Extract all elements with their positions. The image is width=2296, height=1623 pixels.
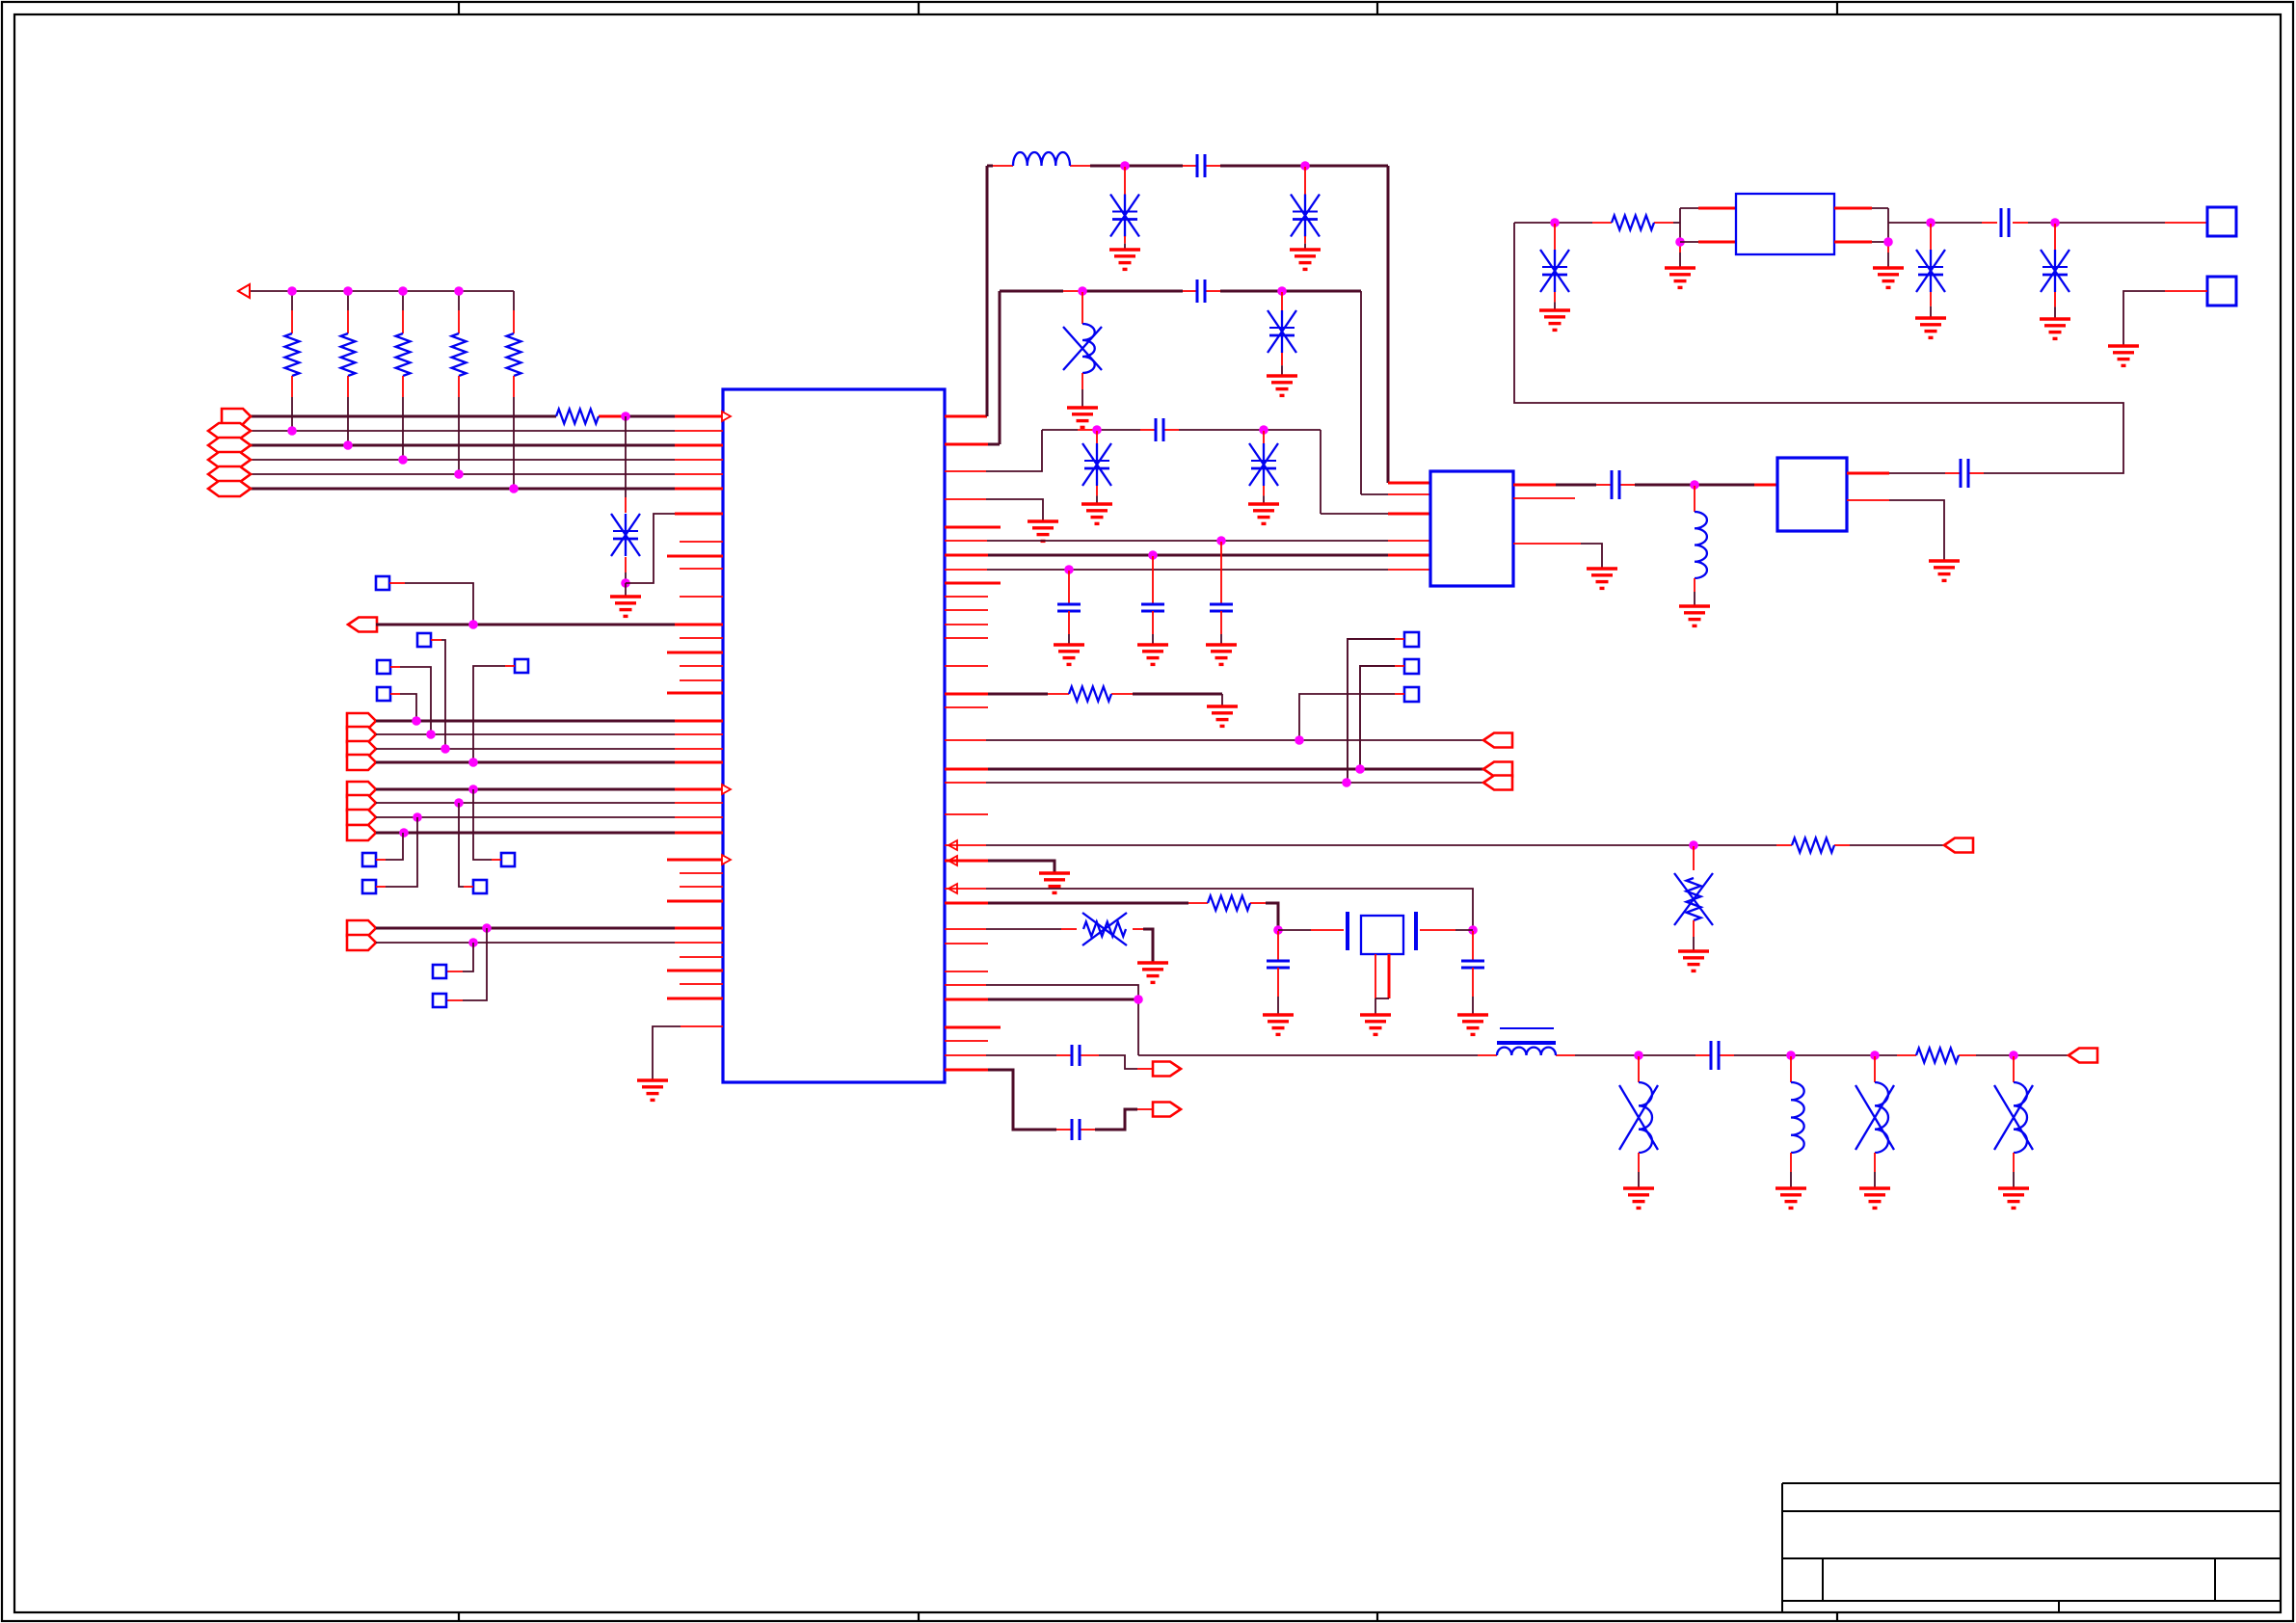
variable inductor L2 (1063, 292, 1102, 427)
wire arrow line 648 (376, 624, 723, 626)
bus wire b2 (945, 554, 1430, 557)
wire FL2 pin2 gnd (1847, 500, 1944, 561)
capacitor C12 (1072, 1045, 1080, 1066)
pin arrowhead line 819 (722, 785, 731, 794)
ground 893 (1039, 873, 1070, 892)
junction R4-line5 (454, 469, 464, 479)
wire FL1 pin3 gnd (1513, 544, 1602, 569)
wire P6 down (390, 694, 416, 721)
ground pin518 (1028, 521, 1058, 541)
junction R2-line3 (343, 440, 353, 450)
bus wire line2 (251, 430, 723, 432)
pin arrowhead 877 (948, 840, 957, 850)
wire line 963 (376, 927, 723, 930)
ground R8 (1207, 706, 1238, 726)
junction 978 (468, 938, 478, 947)
connector P22 square (433, 965, 446, 978)
connector P31 arrow (1153, 1103, 1181, 1117)
junction FL1 out (1690, 480, 1699, 490)
connector P15 square (362, 853, 376, 866)
capacitor C2 (1197, 279, 1205, 303)
connector P6 square (377, 687, 390, 701)
junction 833 (454, 798, 464, 808)
junction 963 (482, 923, 492, 933)
wire lineA (945, 1055, 1153, 1069)
junction varactor node (621, 578, 630, 588)
wire P1 to node (389, 583, 473, 625)
balun output tie (1887, 208, 1889, 268)
resistor R1 with leads (285, 291, 300, 431)
rail junction node 1 (287, 286, 297, 296)
inductor L1 (1013, 152, 1070, 166)
junction xtal right (1468, 925, 1478, 935)
capacitor C7 (1612, 470, 1619, 499)
wire P23 down (1348, 639, 1404, 783)
junction R1-line2 (287, 426, 297, 436)
junction 819 (468, 785, 478, 794)
connector P5 square (515, 659, 528, 673)
junction 877 (1689, 840, 1698, 850)
wire line 819 (376, 788, 723, 791)
pin arrowhead line1 (722, 412, 731, 421)
wire P15 up (376, 833, 403, 860)
junction balun out (1883, 237, 1893, 247)
wire line 812 (945, 782, 1483, 784)
ground RV2 (1137, 963, 1168, 982)
wire line 937 (945, 903, 1278, 930)
wire P24 down (1360, 666, 1404, 769)
ground J8 (2108, 346, 2139, 365)
rail junction node 3 (398, 286, 408, 296)
connector P13 pentagon (347, 810, 376, 825)
junction row3 b (1259, 425, 1268, 435)
filter FL3 (1736, 194, 1834, 254)
junction topright c (2050, 218, 2060, 227)
connector P12 pentagon (347, 795, 376, 811)
bus wire line1 (251, 415, 723, 418)
junction 791 (468, 758, 478, 767)
wire line 768 (945, 739, 1483, 741)
capacitor C4 (1054, 571, 1084, 664)
capacitor C3 (1156, 418, 1163, 441)
bus wire line6 (251, 488, 723, 491)
connector J5 hexagon (208, 466, 251, 482)
junction row1 a (1120, 161, 1130, 171)
capacitor C14 (1711, 1041, 1719, 1070)
resistor R4 with leads (452, 291, 467, 474)
varistor RV1 (1674, 846, 1713, 971)
ground FL1 (1587, 569, 1617, 588)
varactor D3 (1290, 167, 1321, 269)
wire P18 up (459, 803, 473, 887)
junction topright a (1550, 218, 1560, 227)
capacitor C6 (1206, 542, 1237, 664)
border zone tick marks (459, 2, 1837, 1621)
connector J3 hexagon (208, 438, 251, 453)
wire balun out pair (1834, 208, 1888, 242)
wire row3 (1042, 430, 1430, 514)
connector P7 pentagon (347, 713, 376, 729)
connector J1 pentagon (222, 409, 251, 424)
crystal Y1 (1348, 912, 1416, 1034)
connector P28 arrow (1483, 776, 1512, 790)
wire line 922 (945, 889, 1473, 930)
junction 812 (1342, 778, 1351, 787)
wire IC pin461 to row2 (945, 291, 1000, 444)
capacitor C10 (1263, 931, 1294, 1034)
wire xtal right (1420, 929, 1473, 931)
wire line 791 (376, 761, 723, 764)
resistor R11 (1916, 1049, 1959, 1063)
pin arrowhead 922 (948, 884, 957, 893)
capacitor C1 (1197, 154, 1205, 177)
connector P10 pentagon (347, 755, 376, 770)
wire topright main b (1888, 222, 2207, 224)
wire line 748 (376, 720, 723, 723)
bus wire line3 (251, 444, 723, 447)
wire varactor node to IC (626, 514, 723, 583)
wire line 893 (945, 861, 1055, 873)
capacitor C13 (1072, 1119, 1080, 1140)
wire P17 up (376, 817, 417, 887)
connector J8 square (2207, 277, 2236, 306)
variable inductor L7 (1994, 1056, 2033, 1208)
FL1 nc stub (1513, 497, 1575, 499)
ground FL2 (1929, 561, 1960, 580)
wire line 777 (376, 748, 723, 750)
balun input tie (1679, 208, 1681, 268)
resistor R9 (1792, 838, 1834, 853)
capacitor C8 (1961, 459, 1968, 488)
bus wire b3 (945, 569, 1430, 571)
junction row3 a (1092, 425, 1102, 435)
connector J2 hexagon (208, 423, 251, 439)
junction 762 (426, 730, 436, 739)
wire FL2 out loop (1514, 223, 2123, 473)
junction xtal left (1273, 925, 1283, 935)
rail junction node 4 (454, 286, 464, 296)
connector P20 pentagon (347, 935, 376, 950)
wire line 978 (376, 942, 723, 944)
rail junction node 2 (343, 286, 353, 296)
connector P17 square (362, 880, 376, 893)
junction bl c (1870, 1051, 1880, 1060)
connector P16 square (501, 853, 515, 866)
junction 864 (399, 828, 409, 838)
varactor D8 (1915, 224, 1946, 337)
junction 648 (468, 620, 478, 629)
wire P3 down (431, 640, 445, 749)
connector P14 pentagon (347, 825, 376, 840)
wire xtal left (1278, 929, 1344, 931)
connector P21 square (433, 994, 446, 1007)
wire P5 down (473, 666, 515, 762)
ferrite bead FB1 (1497, 1028, 1556, 1055)
wire pin1022 (945, 985, 1138, 1055)
junction bl a (1634, 1051, 1643, 1060)
junction R5-line6 (509, 484, 519, 493)
junction row2 b (1277, 286, 1287, 296)
connector P32 arrow (2069, 1049, 2097, 1063)
varactor D4 (1267, 292, 1297, 395)
varactor D1 with leads (611, 416, 640, 583)
connector P29 arrow (1944, 838, 1973, 853)
connector P26 arrow (1483, 733, 1512, 748)
wire line 877 (945, 844, 1944, 846)
connector P30 arrow (1153, 1062, 1181, 1077)
wire line 762 (376, 733, 723, 735)
varactor D7 (1539, 224, 1570, 330)
junction topright b (1926, 218, 1936, 227)
wire IC pin489 to row3 (945, 430, 1042, 471)
resistor R5 with leads (507, 291, 521, 489)
wire row2 (1000, 291, 1430, 494)
junction 748 (412, 716, 421, 726)
varactor D5 (1081, 431, 1112, 523)
title block (1782, 1483, 2281, 1612)
capacitor C11 (1457, 931, 1488, 1034)
wire J8 to ground (2123, 291, 2207, 346)
wire P4 down (390, 667, 431, 734)
junction 768 (1295, 735, 1304, 745)
connector P4 square (377, 660, 390, 674)
junction 798 (1355, 764, 1365, 774)
connector P23 square (1404, 632, 1419, 647)
IC U1 right pin stubs (945, 527, 1001, 1041)
bus wire line4 (251, 459, 723, 461)
junction row2 a (1078, 286, 1087, 296)
resistor R2 with leads (341, 291, 356, 445)
varactor D9 (2040, 224, 2070, 338)
junction 1037 (1134, 995, 1143, 1004)
wire P16 up (473, 789, 501, 860)
connector P1 square (376, 576, 389, 590)
wire node to ground (625, 583, 627, 597)
connector P2 arrow (348, 618, 377, 632)
power rail wire (250, 290, 514, 292)
varactor D2 (1109, 167, 1140, 269)
wire FL1 out (1513, 484, 1777, 487)
rail end arrow (238, 284, 250, 298)
connector P25 square (1404, 687, 1419, 702)
wire line 798 (945, 768, 1483, 771)
variable inductor L4 (1619, 1056, 1658, 1208)
wire row1 (987, 166, 1430, 483)
resistor R3 with leads (396, 291, 411, 460)
connector P19 pentagon (347, 920, 376, 936)
ground balun in (1665, 268, 1695, 287)
wire bottom long (1138, 1054, 2069, 1056)
junction 777 (441, 744, 450, 754)
bus wire b1 (945, 540, 1430, 542)
connector P18 square (473, 880, 487, 893)
junction row1 b (1300, 161, 1310, 171)
wire line 833 (376, 802, 723, 804)
wire P25 down (1299, 694, 1404, 740)
junction R6-node (621, 412, 630, 421)
junction b3 (1064, 565, 1074, 574)
capacitor C9 (2001, 208, 2009, 237)
IC U1 (723, 389, 945, 1082)
ground balun out (1873, 268, 1904, 287)
wire pin1037 (945, 998, 1138, 1001)
connector P11 pentagon (347, 782, 376, 797)
connector P8 pentagon (347, 727, 376, 742)
resistor R7 (1612, 216, 1654, 230)
junction balun in (1675, 237, 1685, 247)
wire topright main a (1514, 222, 1680, 224)
wire pin964 (945, 929, 1153, 963)
wire node963 to P21 (446, 928, 487, 1000)
connector P3 square (417, 633, 431, 647)
wire lineB (945, 1070, 1153, 1130)
junction bl d (2009, 1051, 2018, 1060)
wire pin720 (945, 694, 1222, 706)
inductor L3 (1679, 486, 1710, 625)
junction b2 (1148, 550, 1158, 560)
inductor L5 (1775, 1056, 1806, 1208)
ground under D1 (610, 597, 641, 616)
junction 848 (413, 812, 422, 822)
varactor D6 (1248, 431, 1279, 523)
resistor R10 (1208, 896, 1250, 911)
resistor R6 (556, 410, 599, 424)
bus wire line5 (251, 473, 723, 475)
wire IC pin432 to row1 (945, 166, 987, 416)
connector J4 hexagon (208, 452, 251, 467)
capacitor C5 (1137, 556, 1168, 664)
wire line 864 (376, 832, 723, 835)
connector P9 pentagon (347, 741, 376, 757)
filter FL2 (1777, 458, 1847, 531)
connector J7 square (2207, 207, 2236, 236)
wire IC pin518 to ground (945, 499, 1043, 521)
junction bl b (1786, 1051, 1796, 1060)
pin arrowhead 893 (948, 856, 957, 865)
connector J6 hexagon (208, 481, 251, 496)
varistor RV2 (1082, 913, 1127, 945)
junction b1 (1216, 536, 1226, 545)
IC U1 left pin stubs (667, 542, 731, 998)
junction R3-line4 (398, 455, 408, 465)
wire IC pin to ground (653, 1026, 723, 1080)
ground bottom-left (637, 1080, 668, 1100)
variable inductor L6 (1855, 1056, 1894, 1208)
connector P27 arrow (1483, 762, 1512, 777)
connector P24 square (1404, 659, 1419, 674)
wire line 848 (376, 816, 723, 818)
wire node978 to P22 (446, 943, 473, 971)
wire balun in pair (1680, 208, 1736, 242)
filter FL1 (1430, 471, 1513, 586)
resistor R8 (1069, 687, 1111, 702)
